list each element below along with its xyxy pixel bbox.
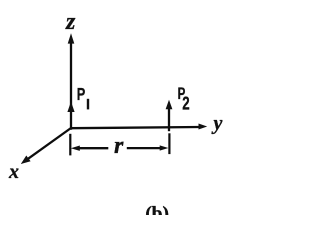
svg-text:2: 2 [182, 94, 189, 115]
svg-text:r: r [114, 133, 124, 159]
svg-text:y: y [212, 112, 223, 134]
svg-text:z: z [65, 9, 76, 35]
svg-text:(b): (b) [145, 204, 169, 215]
svg-text:P: P [77, 85, 86, 104]
svg-text:x: x [8, 161, 19, 183]
